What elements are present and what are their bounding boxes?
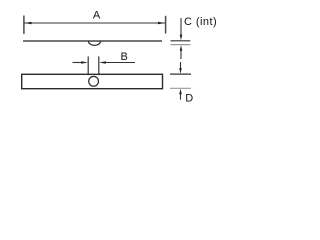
dimension B left arrow [73,62,83,64]
dimension D bottom arrow [180,94,182,100]
dimple circle [89,76,99,86]
front view rectangle [22,74,163,88]
dimension A left arrowhead [25,22,32,25]
dimension A left tick [23,16,25,34]
side view bar line [23,40,162,42]
dimension A right arrowhead [158,22,165,25]
dimension C top arrow [180,18,182,36]
dimension D lower extension line [170,87,191,89]
svg-text:B: B [121,51,128,63]
dimension C upper extension line [171,40,191,42]
dimension B right arrow [104,62,135,64]
svg-text:A: A [93,10,101,22]
dimension D upper extension line [170,73,191,75]
svg-text:C (int): C (int) [184,16,217,28]
dimension C bottom arrow [180,50,182,59]
dimension C lower extension line [171,44,191,46]
svg-text:D: D [185,92,193,104]
dimension A line [25,22,166,24]
dimension B left tick [87,56,89,75]
dimension A right tick [165,16,167,34]
dimension D top arrow [180,62,182,70]
dimple arc [88,41,100,45]
dimension B right tick [98,56,100,75]
